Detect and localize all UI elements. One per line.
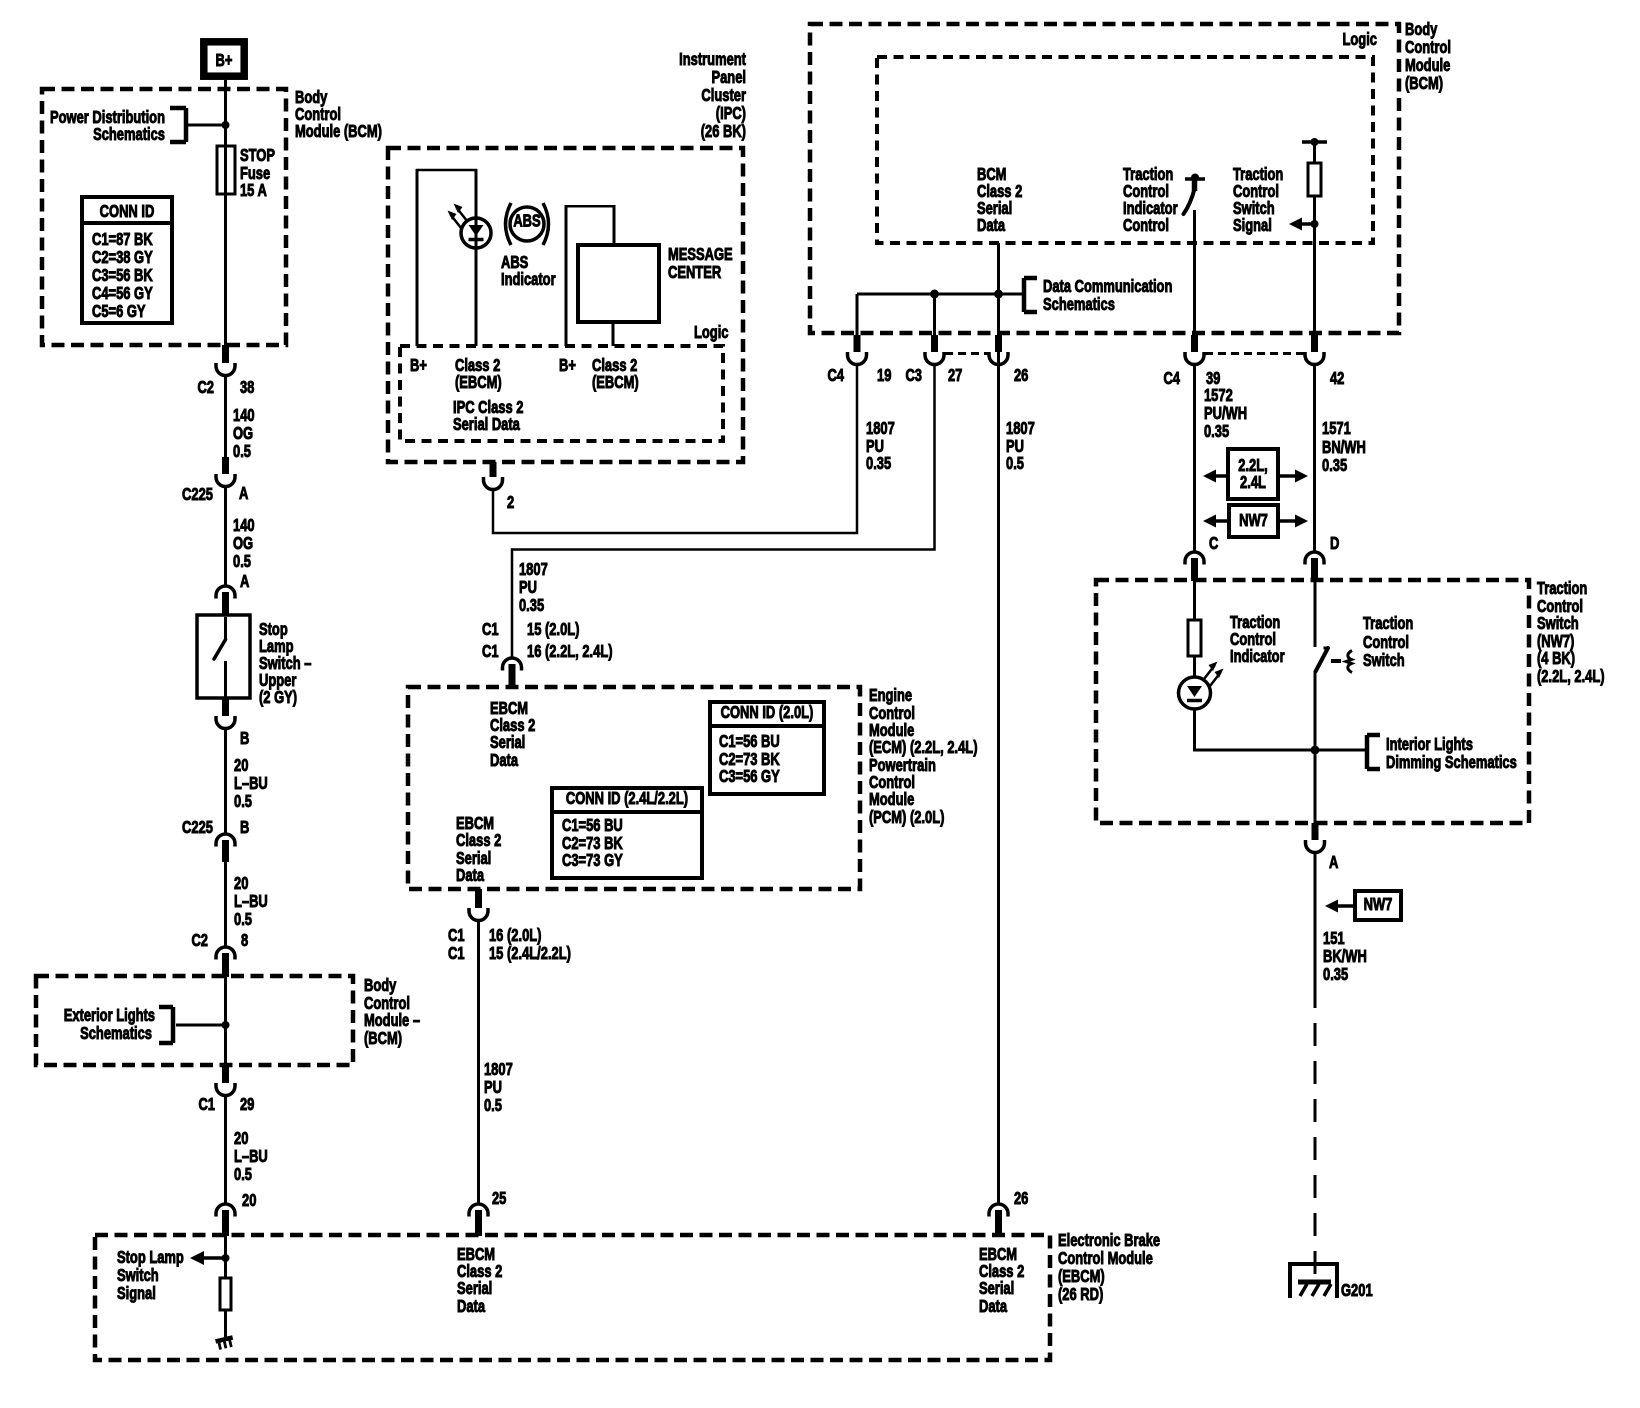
Traction Control Switch (NW7) box [1096, 580, 1529, 823]
svg-text:Module: Module [869, 790, 915, 809]
svg-text:151: 151 [1323, 929, 1345, 948]
svg-text:OG: OG [233, 534, 253, 553]
svg-text:(EBCM): (EBCM) [455, 373, 502, 392]
svg-text:Switch: Switch [1537, 614, 1579, 633]
svg-text:0.5: 0.5 [233, 552, 251, 571]
svg-text:0.35: 0.35 [519, 596, 545, 615]
connector C225 pin A [222, 457, 229, 474]
wire down from bus to pin 19 [856, 294, 859, 335]
svg-text:25: 25 [492, 1189, 507, 1208]
wire IPC serial data to BCM pin 19 [493, 365, 857, 533]
svg-text:0.5: 0.5 [1006, 454, 1024, 473]
svg-text:C3=73 GY: C3=73 GY [562, 851, 623, 870]
svg-text:0.35: 0.35 [1323, 965, 1349, 984]
traction control indicator resistor [1193, 581, 1196, 620]
wire 1807 PU 0.5 (pin 26 to EBCM 26) [997, 365, 1000, 1205]
svg-text:Schematics: Schematics [93, 125, 165, 144]
connector C1 pins 16/15 out of ECM [475, 889, 482, 908]
svg-text:0.5: 0.5 [234, 792, 252, 811]
svg-text:29: 29 [240, 1095, 254, 1114]
svg-text:CONN ID: CONN ID [100, 202, 155, 221]
svg-text:NW7: NW7 [1364, 895, 1393, 914]
svg-text:B+: B+ [216, 51, 233, 70]
svg-text:CENTER: CENTER [668, 263, 721, 282]
wire B+ loop (IPC) [416, 169, 419, 346]
wire 1571 BN/WH 0.35 [1313, 365, 1316, 553]
svg-text:Indicator: Indicator [501, 270, 556, 289]
connector C4 pin 19 [854, 335, 861, 352]
node switch to dimming [1311, 746, 1320, 755]
Body Control Module (BCM) box with Exterior Lights [36, 976, 353, 1065]
wire B+ to fuse and through BCM [224, 80, 227, 345]
svg-text:0.35: 0.35 [866, 454, 892, 473]
wire message center loop [565, 205, 568, 346]
svg-text:1807: 1807 [866, 419, 895, 438]
svg-text:Module (BCM): Module (BCM) [295, 122, 382, 141]
ABS indicator LED [461, 218, 491, 248]
svg-text:PU: PU [484, 1078, 502, 1097]
svg-text:Data Communication: Data Communication [1043, 277, 1172, 296]
svg-text:L–BU: L–BU [234, 774, 268, 793]
connector C1 pin 29 [222, 1065, 229, 1083]
stop lamp switch - upper (2 GY) [197, 615, 250, 698]
svg-text:Traction: Traction [1537, 579, 1587, 598]
svg-text:C2: C2 [191, 931, 208, 950]
svg-text:0.5: 0.5 [484, 1096, 502, 1115]
svg-text:Switch: Switch [117, 1266, 159, 1285]
svg-text:Serial Data: Serial Data [453, 415, 520, 434]
wire to Exterior Lights bracket [176, 1024, 226, 1027]
svg-text:BK/WH: BK/WH [1323, 947, 1367, 966]
svg-text:A: A [240, 572, 249, 591]
svg-text:C5=6 GY: C5=6 GY [92, 302, 146, 321]
svg-text:(PCM) (2.0L): (PCM) (2.0L) [869, 808, 944, 827]
svg-text:C1=87 BK: C1=87 BK [92, 230, 153, 249]
node junctions [930, 290, 939, 299]
svg-text:(BCM): (BCM) [364, 1029, 402, 1048]
svg-text:1571: 1571 [1322, 419, 1351, 438]
ground (EBCM internal) [216, 1337, 235, 1350]
svg-text:C3=56 BK: C3=56 BK [92, 266, 153, 285]
node: junction to Exterior Lights Schematics [222, 1021, 230, 1029]
svg-text:(EBCM): (EBCM) [1058, 1267, 1105, 1286]
LED arrows [451, 208, 468, 229]
svg-text:Switch: Switch [1363, 651, 1405, 670]
BCM logic box [877, 57, 1373, 243]
wire 140 OG 0.5 upper [224, 376, 227, 458]
svg-text:(26 BK): (26 BK) [701, 122, 746, 141]
svg-text:2: 2 [507, 493, 514, 512]
svg-text:Traction: Traction [1363, 614, 1413, 633]
svg-text:1807: 1807 [519, 560, 548, 579]
svg-text:CONN ID (2.0L): CONN ID (2.0L) [721, 703, 814, 722]
svg-text:0.5: 0.5 [234, 1165, 252, 1184]
svg-text:140: 140 [233, 406, 255, 425]
bracket Exterior Lights Schematics [171, 1007, 176, 1043]
arrow traction control switch signal [1289, 218, 1302, 231]
wire 1807 PU 0.5 to EBCM 25 [477, 921, 480, 1205]
connector pin A below TCS [1312, 823, 1319, 840]
svg-text:C2: C2 [197, 378, 214, 397]
svg-text:Signal: Signal [117, 1284, 156, 1303]
node: junction to Power Distribution Schematics [222, 121, 230, 129]
svg-text:0.35: 0.35 [1204, 422, 1230, 441]
MESSAGE CENTER box [578, 245, 659, 322]
svg-text:Module –: Module – [364, 1011, 420, 1030]
svg-text:Data: Data [490, 751, 518, 770]
NW7 tag arrow [1355, 891, 1401, 920]
Body Control Module (BCM) box top-right [810, 24, 1399, 333]
svg-text:Serial: Serial [457, 1279, 492, 1298]
wire 20 L-BU 0.5 [224, 862, 227, 947]
svg-text:Body: Body [364, 976, 397, 995]
svg-text:Electronic Brake: Electronic Brake [1058, 1231, 1160, 1250]
svg-text:C1=56 BU: C1=56 BU [719, 732, 780, 751]
svg-text:Schematics: Schematics [1043, 295, 1115, 314]
node at stop lamp signal [222, 1254, 230, 1262]
svg-text:G201: G201 [1341, 1281, 1373, 1300]
svg-text:Indicator: Indicator [1230, 647, 1285, 666]
svg-text:(26 RD): (26 RD) [1058, 1285, 1103, 1304]
svg-text:L–BU: L–BU [234, 1147, 268, 1166]
wire through box [224, 977, 227, 1065]
svg-text:20: 20 [234, 874, 248, 893]
svg-text:16 (2.0L): 16 (2.0L) [489, 926, 541, 945]
svg-text:Exterior Lights: Exterior Lights [64, 1006, 155, 1025]
wire to Power Distribution bracket [186, 124, 226, 127]
svg-text:20: 20 [234, 1129, 248, 1148]
svg-text:Class 2: Class 2 [456, 831, 501, 850]
traction control switch [1314, 581, 1317, 647]
svg-text:C4: C4 [827, 366, 844, 385]
wire 140 OG 0.5 lower [224, 487, 227, 587]
(ABS) telltale symbol [510, 207, 544, 241]
svg-text:C4: C4 [1163, 369, 1180, 388]
svg-text:Control: Control [1363, 633, 1409, 652]
svg-text:1572: 1572 [1204, 386, 1233, 405]
LED arrows [1204, 666, 1221, 687]
svg-text:0.5: 0.5 [234, 910, 252, 929]
svg-text:Data: Data [456, 866, 484, 885]
bracket Interior Lights Dimming Schematics [1365, 735, 1370, 769]
svg-text:A: A [1329, 853, 1338, 872]
svg-text:C1: C1 [448, 944, 465, 963]
svg-text:Control: Control [1405, 38, 1451, 57]
svg-text:C1: C1 [448, 926, 465, 945]
Instrument Panel Cluster (IPC) box [388, 148, 743, 462]
svg-text:B: B [240, 818, 249, 837]
svg-text:0.35: 0.35 [1322, 456, 1348, 475]
wire 20 L-BU 0.5 [224, 1096, 227, 1205]
svg-text:OG: OG [233, 424, 253, 443]
connector C2 pin 38 [222, 345, 229, 363]
option box NW7 [1229, 505, 1278, 537]
svg-text:38: 38 [240, 378, 255, 397]
connector pin 26 [995, 335, 1002, 352]
wire 20 L-BU 0.5 [224, 729, 227, 835]
svg-text:0.5: 0.5 [233, 442, 251, 461]
wire LED to junction [1195, 709, 1367, 750]
Body Control Module (BCM) box top-left [42, 89, 286, 345]
wire 1807 PU 0.35 (pin 27 to ECM) [512, 365, 935, 659]
svg-text:42: 42 [1330, 369, 1344, 388]
svg-text:26: 26 [1014, 366, 1028, 385]
svg-text:Schematics: Schematics [80, 1024, 152, 1043]
svg-text:PU/WH: PU/WH [1204, 404, 1247, 423]
connector pin 2 out of IPC [490, 462, 497, 477]
svg-text:CONN ID (2.4L/2.2L): CONN ID (2.4L/2.2L) [566, 789, 688, 808]
svg-text:C225: C225 [182, 485, 213, 504]
momentary contact symbol [1331, 659, 1341, 663]
svg-text:Module: Module [1405, 56, 1451, 75]
svg-text:D: D [1330, 534, 1339, 553]
svg-text:Logic: Logic [694, 323, 729, 342]
bracket Power Distribution Schematics [184, 108, 189, 142]
svg-text:26: 26 [1014, 1189, 1028, 1208]
svg-text:Logic: Logic [1343, 30, 1378, 49]
svg-text:16 (2.2L, 2.4L): 16 (2.2L, 2.4L) [527, 642, 613, 661]
svg-text:140: 140 [233, 516, 255, 535]
battery feed B+ terminal [204, 42, 244, 76]
svg-text:B+: B+ [410, 356, 427, 375]
svg-text:C225: C225 [182, 818, 213, 837]
connector B out of stop lamp switch [222, 698, 229, 716]
svg-text:MESSAGE: MESSAGE [668, 245, 733, 264]
svg-text:Interior Lights: Interior Lights [1386, 735, 1473, 754]
svg-text:20: 20 [234, 756, 248, 775]
svg-text:ABS: ABS [513, 212, 540, 231]
svg-text:Dimming Schematics: Dimming Schematics [1386, 753, 1517, 772]
svg-text:Stop Lamp: Stop Lamp [117, 1248, 184, 1267]
wire 1572 PU/WH 0.35 [1193, 365, 1196, 553]
svg-text:C: C [1209, 534, 1218, 553]
svg-text:27: 27 [948, 366, 962, 385]
wire BCM class 2 serial data [997, 243, 1000, 365]
svg-text:Panel: Panel [711, 68, 746, 87]
svg-text:Data: Data [979, 1297, 1007, 1316]
IPC logic box [400, 346, 723, 441]
svg-text:BN/WH: BN/WH [1322, 438, 1366, 457]
connector pin 42 [1311, 335, 1318, 352]
svg-text:C3=56 GY: C3=56 GY [719, 767, 780, 786]
svg-text:15 (2.4L/2.2L): 15 (2.4L/2.2L) [489, 944, 571, 963]
connector C4 pin 39 [1191, 335, 1198, 352]
svg-text:C1: C1 [482, 642, 499, 661]
svg-text:(2.2L, 2.4L): (2.2L, 2.4L) [1537, 667, 1605, 686]
svg-text:19: 19 [877, 366, 891, 385]
svg-text:15 A: 15 A [240, 181, 267, 200]
resistor EBCM input [220, 1278, 231, 1310]
connector link dashes 39-42 [1205, 352, 1305, 355]
svg-text:Instrument: Instrument [679, 50, 746, 69]
svg-text:Signal: Signal [1233, 216, 1272, 235]
svg-text:Cluster: Cluster [701, 86, 746, 105]
svg-text:Control: Control [1123, 216, 1169, 235]
svg-text:(2 GY): (2 GY) [259, 688, 297, 707]
svg-text:8: 8 [241, 931, 249, 950]
svg-text:(BCM): (BCM) [1405, 74, 1443, 93]
svg-text:B+: B+ [559, 356, 576, 375]
CONN ID (2.4L/2.2L) table [552, 788, 702, 878]
svg-text:NW7: NW7 [1239, 511, 1268, 530]
svg-text:C2=38 GY: C2=38 GY [92, 248, 153, 267]
wire to internal resistor [224, 1235, 227, 1278]
svg-text:15 (2.0L): 15 (2.0L) [527, 620, 579, 639]
CONN ID table (BCM) [82, 197, 172, 323]
svg-text:Serial: Serial [979, 1279, 1014, 1298]
svg-text:C4=56 GY: C4=56 GY [92, 284, 153, 303]
svg-text:1807: 1807 [1006, 419, 1035, 438]
svg-text:Data: Data [457, 1297, 485, 1316]
bracket Data Communication Schematics [1022, 278, 1027, 312]
svg-text:C1=56 BU: C1=56 BU [562, 816, 623, 835]
svg-text:PU: PU [519, 578, 537, 597]
svg-text:L–BU: L–BU [234, 892, 268, 911]
svg-text:C1: C1 [198, 1095, 215, 1114]
svg-text:Engine: Engine [869, 686, 912, 705]
svg-text:2.4L: 2.4L [1240, 473, 1266, 492]
svg-text:Serial: Serial [490, 733, 525, 752]
Engine Control Module box [408, 687, 860, 889]
svg-text:(EBCM): (EBCM) [592, 373, 639, 392]
svg-text:A: A [239, 484, 248, 503]
svg-text:C3: C3 [905, 366, 922, 385]
svg-text:(ECM) (2.2L, 2.4L): (ECM) (2.2L, 2.4L) [869, 738, 978, 757]
svg-text:Body: Body [1405, 20, 1438, 39]
Electronic Brake Control Module (EBCM) box [95, 1235, 1050, 1360]
fuse STOP 15 A [217, 146, 235, 194]
traction control indicator LED [1179, 677, 1211, 709]
svg-text:1807: 1807 [484, 1060, 513, 1079]
svg-text:STOP: STOP [240, 146, 275, 165]
CONN ID (2.0L) table [710, 702, 824, 794]
svg-text:(IPC): (IPC) [716, 104, 746, 123]
svg-text:Data: Data [977, 216, 1005, 235]
ground G201 [1290, 1264, 1337, 1298]
connector link dashes 27-26 [945, 352, 988, 355]
wire data communication bus [857, 293, 1024, 296]
connector C3 pin 27 [931, 335, 938, 352]
option box 2.2L 2.4L [1228, 449, 1278, 499]
svg-text:C1: C1 [482, 620, 499, 639]
svg-text:Control Module: Control Module [1058, 1249, 1153, 1268]
svg-text:(4 BK): (4 BK) [1537, 649, 1575, 668]
svg-text:20: 20 [242, 1191, 256, 1210]
svg-text:B: B [240, 729, 249, 748]
